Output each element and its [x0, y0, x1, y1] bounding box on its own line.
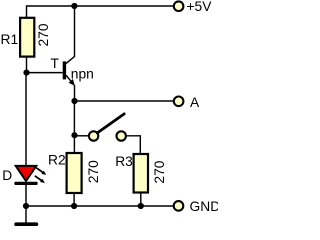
svg-text:270: 270: [152, 160, 167, 183]
node R3 bottom junction: [138, 203, 144, 209]
node LED bottom junction: [23, 203, 29, 209]
resistor R3: [134, 154, 148, 193]
wire to switch left contact: [75, 135, 90, 137]
ground: [14, 206, 38, 226]
wire emitter rail down to R2: [73, 101, 75, 153]
wire switch right contact to R3: [126, 136, 140, 154]
svg-text:A: A: [190, 95, 200, 110]
wire left rail down to LED: [25, 73, 27, 166]
wire R2 bottom lead: [73, 193, 75, 206]
svg-text:270: 270: [86, 160, 101, 183]
wire to terminal A: [75, 100, 174, 102]
wire top rail from R1 to +5V terminal: [27, 6, 174, 18]
LED D: [14, 166, 46, 185]
wire bottom rail to GND terminal: [26, 205, 174, 207]
svg-text:270: 270: [36, 23, 51, 46]
wire R1 bottom lead: [26, 57, 28, 73]
terminal +5V: [174, 1, 184, 11]
svg-text:R3: R3: [115, 154, 133, 169]
node R2 bottom junction: [71, 203, 77, 209]
wire collector drop to transistor: [66, 6, 75, 64]
resistor R2: [67, 153, 82, 193]
node collector junction on top rail: [71, 3, 77, 9]
terminal A: [174, 97, 184, 107]
terminal GND: [174, 201, 184, 211]
svg-text:+5V: +5V: [187, 0, 213, 14]
resistor R1: [20, 18, 34, 57]
node switch junction: [71, 132, 77, 138]
switch S: [89, 114, 126, 141]
wire R3 bottom lead: [140, 193, 142, 207]
svg-text:npn: npn: [71, 67, 94, 82]
svg-text:R2: R2: [48, 152, 66, 167]
wire base: [27, 72, 63, 74]
wire emitter down: [74, 85, 76, 101]
svg-text:D: D: [2, 168, 12, 183]
wire LED bottom lead: [25, 185, 27, 206]
svg-text:T: T: [51, 56, 60, 71]
node base junction: [23, 70, 29, 76]
svg-text:GND: GND: [190, 199, 219, 214]
node A junction: [71, 98, 77, 104]
transistor T: [63, 61, 75, 86]
svg-text:R1: R1: [1, 32, 19, 47]
